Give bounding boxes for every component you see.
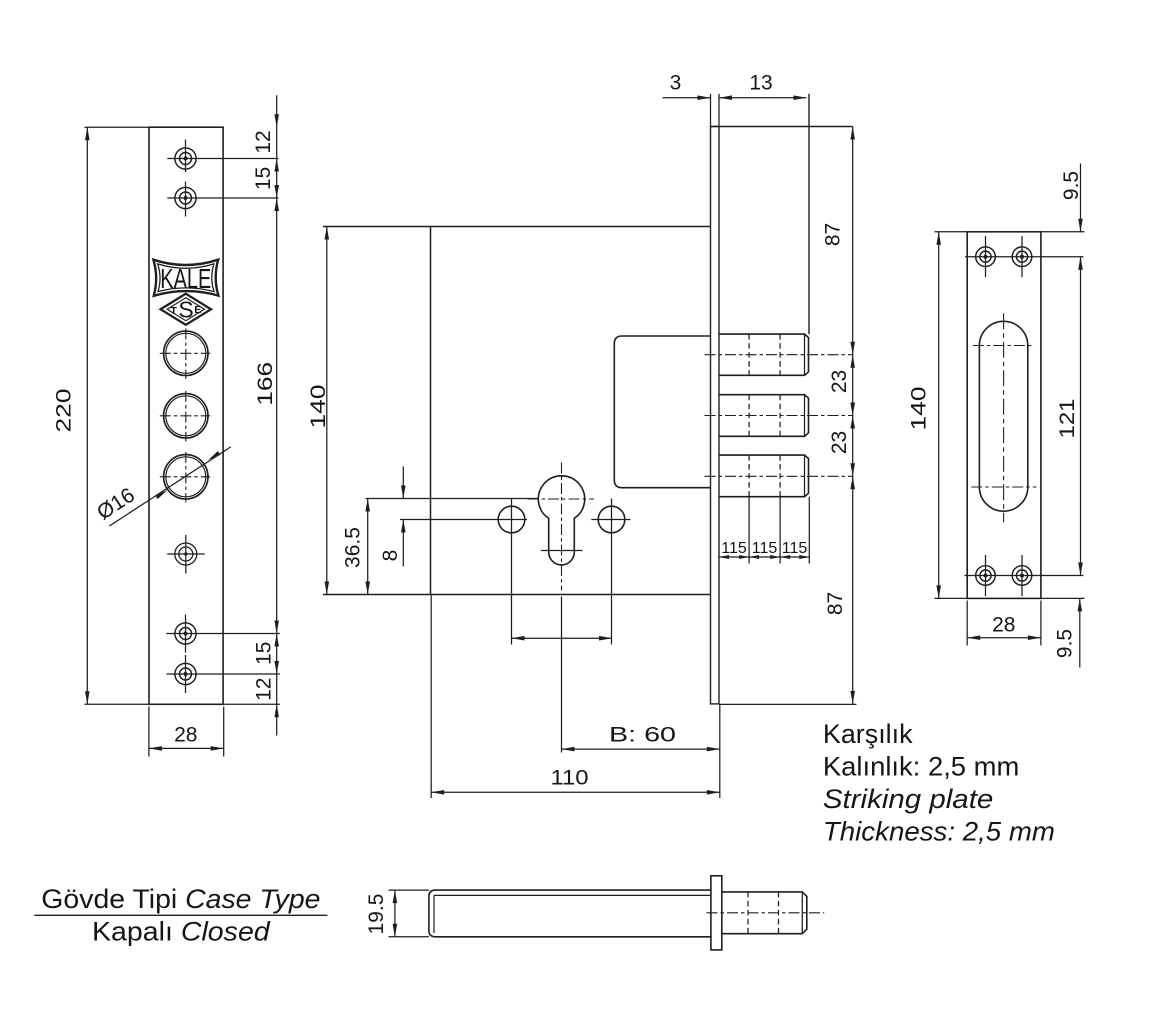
bolt pin 1	[705, 334, 853, 375]
body screw hole left	[498, 499, 525, 645]
svg-text:140: 140	[908, 387, 931, 431]
svg-text:110: 110	[551, 767, 589, 790]
caption Gövde Tipi	[34, 884, 327, 946]
svg-text:E: E	[194, 304, 201, 316]
dimension 13	[719, 72, 807, 101]
faceplate bar (bottom view)	[711, 876, 722, 950]
lock body outline	[323, 227, 711, 595]
dimension 28 (left plate width)	[149, 707, 224, 757]
plate screw hole top-left	[965, 236, 1083, 277]
faceplate outline	[149, 127, 223, 704]
bolt (bottom view)	[707, 892, 825, 934]
svg-text:87: 87	[822, 223, 845, 246]
dimension 3	[663, 72, 711, 101]
dimension 140 (striking plate)	[908, 232, 942, 599]
extension lines	[85, 126, 150, 128]
faceplate bar (side)	[711, 94, 720, 704]
caption Karşılık block	[823, 719, 1055, 847]
svg-text:Kapalı Closed: Kapalı Closed	[92, 917, 271, 947]
svg-text:121: 121	[1056, 399, 1079, 439]
svg-text:140: 140	[307, 385, 330, 429]
rear body edge	[711, 94, 853, 334]
plate screw hole bottom-right	[1012, 555, 1032, 596]
dimension 140 (body height)	[307, 227, 330, 595]
svg-text:Karşılık: Karşılık	[823, 719, 913, 749]
right dimension chain 87/23/23/87	[719, 127, 857, 705]
svg-text:12: 12	[253, 678, 276, 701]
svg-text:B: 60: B: 60	[609, 724, 676, 747]
TSE logo diamond	[161, 294, 211, 325]
dimension 9.5 top	[1060, 164, 1083, 232]
svg-text:166: 166	[254, 362, 277, 406]
dimension 110	[431, 595, 720, 799]
bolt slot	[971, 313, 1036, 522]
screw distance dimension	[512, 636, 613, 641]
bottom screw hole 1	[166, 615, 280, 653]
euro cylinder keyhole	[528, 463, 595, 753]
svg-text:Gövde Tipi Case Type: Gövde Tipi Case Type	[41, 884, 320, 914]
big hole 2 (Ø16)	[160, 391, 210, 442]
reference line A (cylinder axis)	[366, 498, 539, 500]
body screw hole right	[598, 499, 625, 645]
top screw hole 1	[167, 140, 278, 173]
case bottom outline	[429, 890, 711, 937]
svg-text:28: 28	[992, 614, 1015, 637]
reference line B (screw axis)	[400, 519, 527, 521]
svg-text:220: 220	[53, 389, 76, 433]
leader Ø16	[93, 447, 231, 526]
svg-text:9.5: 9.5	[1060, 171, 1083, 200]
top screw hole 2	[167, 182, 278, 217]
inner cutout	[614, 336, 710, 488]
dimension 220	[53, 127, 90, 704]
svg-text:15: 15	[253, 642, 276, 665]
bottom screw hole 2	[166, 655, 280, 693]
dimension 9.5 bottom	[1054, 598, 1083, 667]
svg-text:Striking plate: Striking plate	[823, 784, 993, 814]
dimension B: 60	[562, 724, 720, 752]
big hole 3 (Ø16)	[160, 452, 210, 503]
svg-text:23: 23	[828, 370, 851, 393]
svg-text:36.5: 36.5	[342, 527, 365, 568]
dimension 8	[379, 467, 406, 567]
bolt pin 2	[705, 395, 853, 437]
dimension 121	[1056, 257, 1083, 576]
big hole 1 (Ø16)	[160, 329, 210, 380]
dimension 36.5	[342, 499, 371, 595]
svg-text:23: 23	[828, 431, 851, 454]
dimension 19.5	[365, 890, 429, 937]
svg-text:8: 8	[379, 550, 402, 562]
svg-text:115: 115	[782, 540, 808, 557]
svg-text:Kalınlık: 2,5 mm: Kalınlık: 2,5 mm	[823, 752, 1019, 782]
dimensions 11,5 x3	[719, 497, 809, 564]
svg-text:87: 87	[824, 592, 847, 615]
KALE logo banner	[153, 260, 218, 296]
svg-text:S: S	[178, 297, 193, 323]
svg-text:15: 15	[252, 167, 275, 190]
small center hole	[167, 535, 205, 574]
plate screw hole top-right	[1012, 236, 1032, 277]
svg-text:Thickness: 2,5 mm: Thickness: 2,5 mm	[823, 817, 1055, 847]
svg-text:19.5: 19.5	[365, 894, 388, 935]
svg-text:9.5: 9.5	[1054, 629, 1077, 658]
svg-text:T: T	[170, 305, 177, 317]
svg-text:KALE: KALE	[160, 263, 211, 294]
svg-text:12: 12	[252, 130, 275, 153]
plate screw hole bottom-left	[964, 555, 1083, 596]
left faceplate view	[85, 127, 280, 704]
svg-text:115: 115	[721, 540, 747, 557]
svg-text:13: 13	[749, 72, 772, 95]
dimension 28 (striking plate width)	[967, 601, 1041, 646]
svg-text:3: 3	[670, 72, 682, 95]
svg-text:28: 28	[174, 724, 197, 747]
striking plate outline	[935, 232, 1085, 599]
case inner wall line	[433, 895, 435, 933]
right dimension chain 12/15/166/15/12	[252, 95, 279, 735]
svg-text:115: 115	[752, 540, 778, 557]
bolt pin 3	[705, 455, 853, 497]
